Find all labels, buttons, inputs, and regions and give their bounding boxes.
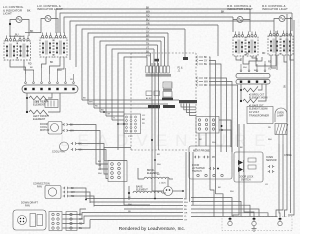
wire L.F. lamp left [10, 20, 16, 37]
wires into P1 grid [181, 104, 231, 148]
oven lamp [275, 108, 288, 144]
svg-text:SENSOR: SENSOR [266, 159, 277, 162]
svg-text:A1 B2: A1 B2 [146, 97, 152, 100]
svg-text:SWITCH: SWITCH [192, 170, 202, 173]
door lock switch box [234, 152, 263, 182]
wires transformer to supply terminals [233, 124, 283, 217]
svg-text:BK: BK [146, 6, 150, 9]
surface switch L.R. (right) [54, 33, 67, 58]
surface switch R.F. (right) [281, 31, 293, 56]
surface switch R.R. (right) [246, 32, 258, 57]
svg-text:BU: BU [246, 54, 250, 56]
svg-text:ELEMENT 2600W: ELEMENT 2600W [249, 108, 269, 110]
wire bus vertical 11 to connector P5 [117, 124, 119, 150]
ground symbol [252, 226, 257, 232]
wire BU [9, 35, 24, 37]
terminal box A [155, 59, 160, 62]
svg-text:OR: OR [107, 114, 111, 116]
surface switch R.F. (left) [268, 31, 280, 56]
svg-text:ELEMENT: ELEMENT [33, 117, 46, 121]
svg-text:BR: BR [157, 154, 160, 156]
svg-text:BK: BK [27, 9, 31, 13]
svg-text:WH: WH [89, 102, 93, 104]
wire L.F. lamp right [22, 20, 29, 37]
door cool motor [40, 122, 74, 135]
wire right edge vertical 1 [286, 14, 288, 198]
svg-text:ELEMENT 3400W: ELEMENT 3400W [249, 97, 269, 99]
wires convection fan to bundle [69, 188, 94, 207]
supply terminal L2 [278, 217, 282, 226]
terminal block left surface elements [22, 68, 78, 93]
label L.F. control [3, 5, 24, 15]
svg-text:WH: WH [146, 10, 150, 13]
svg-text:WH: WH [157, 164, 161, 166]
latch switch bar [179, 100, 197, 103]
surface switch L.F. (right) [18, 36, 31, 61]
junction dots [85, 123, 156, 200]
svg-text:MEAT PROBE: MEAT PROBE [193, 149, 210, 153]
svg-text:ELEMENT: ELEMENT [33, 102, 46, 106]
relay stack [162, 82, 173, 100]
wire ERC lower left [104, 148, 131, 161]
svg-text:SWITCH: SWITCH [241, 179, 251, 182]
svg-text:BU: BU [101, 110, 104, 112]
wire right edge vertical 3 [293, 20, 295, 206]
wire bus: verticals bending right [82, 100, 179, 120]
wires from down draft to bundle [63, 209, 91, 228]
svg-text:WH: WH [98, 173, 102, 175]
terminal block right oven elements [236, 61, 270, 84]
svg-text:BR: BR [142, 119, 145, 121]
svg-text:10 VOLT: 10 VOLT [249, 110, 260, 114]
wire R.F. lamp [274, 19, 279, 32]
svg-text:WH: WH [184, 202, 188, 204]
svg-text:Rendered by LeadVenture, Inc.: Rendered by LeadVenture, Inc. [119, 226, 185, 232]
label R.R. control [227, 4, 253, 11]
down draft connector 1 [49, 212, 62, 231]
svg-text:P1-2: P1-2 [128, 136, 133, 138]
resistor bake element right [240, 84, 269, 110]
wire to switches [25, 32, 41, 34]
oven sensor [266, 156, 277, 173]
wires cool motor to centre [69, 125, 108, 179]
svg-text:RD: RD [70, 79, 74, 81]
cool fan [52, 142, 83, 154]
svg-text:BU: BU [98, 161, 101, 163]
down draft fan [13, 202, 46, 231]
dark bar C [148, 105, 160, 108]
svg-text:RD: RD [128, 211, 132, 213]
wire centre vertical A [152, 63, 164, 191]
label R.F. control [262, 4, 288, 11]
resistor left rear element [26, 93, 52, 112]
svg-text:LIGHT: LIGHT [3, 12, 12, 16]
svg-text:RD: RD [262, 53, 266, 55]
svg-text:#1 BAKE CKT: #1 BAKE CKT [249, 105, 264, 108]
indicator light R.R. [237, 17, 243, 23]
down draft connector 2 [66, 212, 83, 231]
svg-text:GY: GY [184, 220, 188, 222]
svg-text:FAN: FAN [37, 186, 42, 189]
junctions on vertical A [151, 139, 153, 141]
wire centre vertical B [154, 63, 156, 199]
connector P2 grid [108, 161, 127, 182]
svg-text:WH: WH [212, 142, 216, 144]
svg-text:RD: RD [95, 106, 99, 108]
svg-text:OR: OR [204, 78, 208, 80]
wires right edge down to terminals [285, 198, 295, 217]
wire centre vertical C [158, 63, 160, 150]
surface switch L.F. (left) [4, 36, 17, 61]
meat probe receptacle [189, 146, 232, 179]
wire staircase to terminal block [191, 190, 277, 217]
wire L.R. lamp right [51, 19, 58, 34]
junction [9, 23, 11, 25]
wires P1 grid to meat probe [199, 129, 231, 146]
svg-text:BK: BK [204, 57, 208, 59]
svg-text:BK: BK [284, 84, 287, 88]
wire R.R. lamp [233, 20, 237, 33]
resistor left front element [26, 93, 60, 121]
svg-text:LAMP: LAMP [277, 115, 284, 118]
svg-text:BU: BU [146, 18, 150, 21]
svg-text:WH: WH [128, 204, 132, 206]
oven light switch box [36, 100, 58, 108]
svg-text:WH: WH [204, 82, 208, 84]
wire bus vertical to bottom [124, 204, 150, 206]
svg-text:WH: WH [58, 70, 62, 72]
svg-text:FAN: FAN [25, 205, 30, 208]
svg-text:OR: OR [146, 22, 150, 25]
verticals feeding staircase [186, 152, 193, 205]
indicator light L.F. [16, 17, 22, 23]
svg-text:PK: PK [146, 38, 150, 41]
door actuated switch [192, 164, 219, 173]
svg-text:WH: WH [230, 191, 234, 193]
svg-text:OR: OR [98, 165, 102, 167]
electronic range control dashed outline [131, 53, 196, 150]
wires right switches to oven terminal block [236, 53, 294, 70]
connector P1/J1 grid [196, 117, 223, 134]
convection fan [33, 183, 75, 199]
small relay boxes [146, 91, 160, 100]
wire mid horizontal [104, 160, 127, 162]
wire into P5 [118, 123, 124, 125]
dark bar D [163, 105, 175, 108]
svg-text:RD: RD [146, 14, 150, 17]
svg-text:GY: GY [204, 61, 208, 63]
svg-text:BU: BU [184, 209, 187, 211]
wire labels [30, 67, 272, 213]
supply terminal N [252, 217, 256, 226]
indicator light L.R. [45, 16, 51, 22]
control board pins [197, 56, 208, 87]
label L.R. control [37, 4, 63, 11]
svg-text:BU: BU [15, 33, 19, 36]
terminal block power supply dashed [222, 217, 292, 231]
wire bundle bottom [86, 199, 188, 222]
terminal box B [183, 57, 188, 60]
surface switch L.R. (left) [40, 33, 53, 58]
svg-text:L 1425: L 1425 [159, 183, 166, 185]
wire L.R. lamp left [41, 19, 45, 34]
svg-text:RD: RD [268, 127, 272, 129]
svg-text:RD: RD [184, 206, 188, 208]
svg-text:RD: RD [98, 169, 102, 171]
svg-text:P1 &: P1 & [178, 68, 183, 70]
wires switches to left terminal block [10, 57, 64, 74]
connector socket row [146, 66, 172, 77]
resistor broil element right [240, 84, 269, 101]
broil element coil [138, 168, 173, 179]
wire bus: top horizontal runs turning down [56, 6, 292, 205]
wires to right terminal block [241, 31, 276, 70]
svg-text:CHIME: CHIME [284, 154, 292, 157]
svg-text:INDICATOR LIGHT: INDICATOR LIGHT [262, 7, 288, 11]
svg-text:WH: WH [146, 54, 150, 57]
transformer 10 volt [247, 107, 273, 124]
svg-text:TRANSFORMER: TRANSFORMER [249, 114, 269, 118]
wire right edge vertical 2 [290, 17, 292, 202]
svg-text:#2 BROIL CKT: #2 BROIL CKT [249, 95, 265, 97]
svg-text:GY: GY [146, 30, 150, 33]
svg-text:TN: TN [146, 42, 149, 45]
svg-text:OR: OR [184, 213, 188, 215]
svg-text:WH: WH [243, 67, 247, 69]
svg-text:BK: BK [30, 30, 34, 33]
connector row below meat probe [197, 174, 223, 176]
svg-text:VT: VT [146, 46, 150, 49]
indicator light R.F. [279, 16, 285, 22]
wire fan from control board [209, 57, 238, 194]
bake element coil [128, 186, 166, 201]
surface switch R.R. (left) [233, 32, 245, 57]
svg-text:BK: BK [50, 61, 54, 64]
supply terminal L1 [228, 217, 232, 226]
svg-text:WH: WH [268, 139, 272, 141]
svg-text:RD: RD [28, 63, 32, 66]
svg-text:BU: BU [204, 64, 208, 66]
svg-text:BR: BR [146, 34, 150, 37]
connector P5 grid [124, 114, 141, 138]
motor oven fan [159, 178, 184, 196]
svg-text:RD: RD [204, 85, 208, 87]
